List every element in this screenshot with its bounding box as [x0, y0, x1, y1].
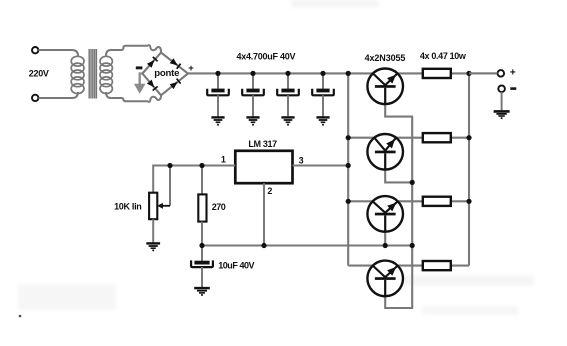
node rail left bus [346, 71, 351, 76]
node left bus row2 [346, 135, 351, 140]
node left bus row3 [346, 199, 351, 204]
node left bus pin3 [346, 163, 351, 168]
svg-text:4x4.700uF 40V: 4x4.700uF 40V [237, 52, 296, 62]
svg-text:1: 1 [221, 155, 226, 165]
diode D3 left-bottom edge [147, 80, 158, 91]
ground C4 [316, 117, 329, 125]
svg-text:4x2N3055: 4x2N3055 [365, 53, 406, 63]
wire LM317 pin2 [263, 183, 265, 245]
resistor R1 [423, 69, 451, 78]
wire minus to ground [501, 92, 503, 111]
terminal AC top [32, 47, 38, 53]
diode D4 bottom-right edge [170, 79, 181, 90]
transistor Q2 [367, 134, 403, 170]
svg-text:10K lin: 10K lin [114, 201, 141, 211]
svg-text:10uF 40V: 10uF 40V [218, 260, 254, 270]
label output minus [510, 87, 516, 90]
terminal output minus [498, 86, 505, 93]
wire transistor row 4 [348, 265, 469, 267]
node base bus out wire [410, 243, 415, 248]
wire base Q4 [385, 292, 413, 308]
svg-text:ponte: ponte [154, 68, 179, 79]
wire rail to plus terminal [469, 72, 497, 74]
wire LM317 output bottom [202, 244, 412, 246]
ground C3 [281, 117, 294, 125]
node out wire Q3 base [383, 243, 388, 248]
wire main positive rail [188, 72, 498, 74]
wire AC top to transformer [39, 50, 79, 56]
transistor Q4 [367, 261, 403, 297]
node out wire pin2 [261, 243, 266, 248]
node out wire 270 cap [199, 243, 204, 248]
watermark smudge top center [292, 0, 378, 7]
wire base Q1 [385, 100, 413, 117]
ground C1 [211, 117, 224, 125]
diode D1 left-top edge [147, 57, 158, 68]
wire transistor row 2 [348, 137, 469, 139]
wire AC bottom to transformer [39, 92, 79, 98]
watermark smudge bottom right 2 [422, 306, 518, 315]
ground potentiometer [146, 243, 160, 251]
node rail C3 [285, 71, 290, 76]
svg-text:270: 270 [212, 202, 226, 212]
label minus at bridge [136, 66, 143, 69]
diode D2 top-right edge [170, 58, 181, 69]
potentiometer 10K lin [149, 167, 170, 244]
capacitor C1 [207, 73, 229, 117]
transistor Q3 [367, 196, 403, 232]
negative arrow to down [140, 74, 143, 85]
node base bus Q2 [410, 180, 415, 185]
resistor R3 [423, 197, 451, 206]
svg-text:LM 317: LM 317 [248, 139, 277, 149]
capacitor C2 [242, 73, 264, 117]
svg-text:+: + [510, 68, 516, 79]
wire secondary bottom to bridge [106, 92, 161, 102]
node pin1 270 [199, 163, 204, 168]
wire secondary top to bridge [106, 45, 161, 55]
node right bus row2 [466, 135, 471, 140]
wire LM317 pin3 [293, 165, 349, 167]
ground output [494, 111, 510, 119]
resistor R4 [423, 261, 451, 270]
capacitor C3 [277, 73, 299, 117]
watermark smudge bottom left [18, 284, 116, 310]
node rail C2 [250, 71, 255, 76]
capacitor C4 [312, 73, 334, 117]
terminal AC bottom [32, 95, 38, 101]
wire base Q3 [384, 228, 386, 246]
bridge rectifier ponte body [142, 53, 188, 96]
watermark dot bottom left [19, 315, 22, 318]
svg-text:3: 3 [299, 156, 304, 166]
wire transistor row 3 [348, 200, 469, 202]
node rail C1 [215, 71, 220, 76]
resistor R2 [423, 133, 451, 142]
svg-text:+: + [188, 63, 194, 74]
terminal output plus [498, 70, 505, 77]
node pin1 wiper [167, 163, 172, 168]
LM317 U1 [235, 151, 292, 183]
wire LM317 pin1 [153, 166, 235, 193]
watermark smudge bottom right [372, 276, 534, 285]
wire left collector bus [347, 73, 349, 265]
transformer T1 secondary winding [100, 56, 112, 93]
node rail C4 [320, 71, 325, 76]
svg-text:4x 0.47 10w: 4x 0.47 10w [420, 51, 467, 61]
transformer T1 primary winding [71, 56, 84, 93]
wire right output bus [468, 73, 470, 265]
svg-text:2: 2 [267, 186, 272, 196]
svg-text:220V: 220V [29, 68, 49, 78]
wire base Q2 [385, 166, 412, 182]
capacitor 10uF [191, 246, 213, 288]
wire base bus [411, 117, 413, 308]
transistor Q1 [367, 69, 403, 105]
ground 10uF [194, 288, 210, 296]
resistor 270 [198, 166, 206, 246]
node right bus row3 [466, 199, 471, 204]
node rail right bus [466, 71, 471, 76]
ground C2 [246, 117, 259, 125]
transformer T1 core [89, 49, 96, 99]
